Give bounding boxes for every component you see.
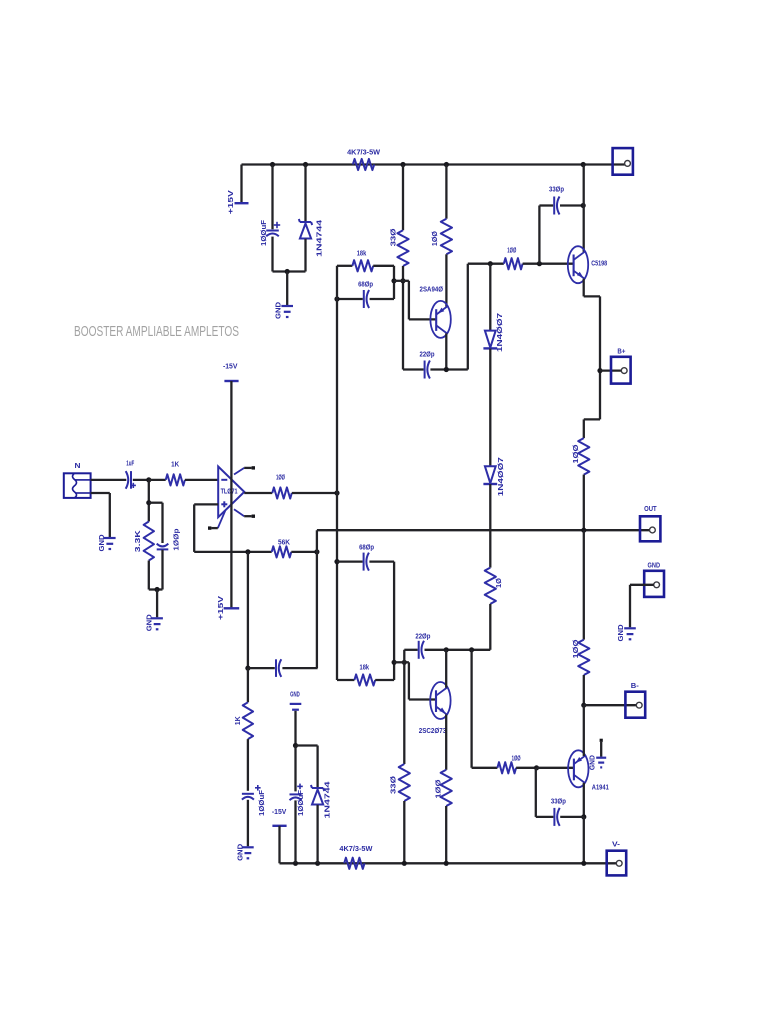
wire mid gnd lead [294,711,296,746]
wire 680p bot row left [337,560,363,562]
wire 18k top row left [337,265,352,267]
wire collector lead A1941 [583,783,585,817]
svg-text:GND: GND [145,614,154,632]
svg-text:1N4744: 1N4744 [315,219,324,257]
wire bottom V- rail [280,862,618,864]
svg-text:1ØØuF: 1ØØuF [257,790,266,816]
node C5198 collector tap [581,162,586,167]
capacitor 680p (bottom) [359,542,374,570]
wire 10 lower lead [489,604,491,650]
node 100 top tap [444,162,449,167]
resistor 1K (integrator) [233,702,253,739]
svg-text:1ØØ: 1ØØ [571,639,580,658]
svg-text:33Øp: 33Øp [549,185,564,194]
svg-text:GND: GND [648,561,661,570]
wire gnd lead top [286,272,288,306]
wire OUT riser [316,530,318,668]
svg-text:+15V: +15V [226,189,235,214]
wire feedback drop [247,552,249,668]
wire C5198 emitter [583,279,585,297]
wire A1941 to rail [583,817,585,863]
op-amp U1 TL071 [218,467,244,518]
svg-text:1ØØ: 1ØØ [433,779,442,798]
svg-text:-15V: -15V [272,807,287,816]
svg-text:C5198: C5198 [591,259,607,268]
terminal OUT box [640,504,660,541]
svg-text:22Øp: 22Øp [420,349,435,358]
resistor 56K (feedback) [272,537,292,557]
node B- tap [581,703,586,708]
svg-text:+15V: +15V [216,595,225,620]
diode D2 1N4007 [483,457,505,496]
svg-text:GND: GND [290,690,300,699]
node 330 top tap [400,162,405,167]
svg-text:22Øp: 22Øp [415,631,430,640]
wire B+ lead [600,369,622,371]
resistor 18k (bottom) [354,663,375,686]
wire 680p bot row right [369,560,394,562]
resistor 100 (op-amp out) [272,473,292,499]
node 680p bottom left [334,559,339,564]
node 330p top tie [537,261,542,266]
power +15V symbol (top left) [226,165,249,215]
terminal B- box [625,681,645,718]
svg-text:4K7/3-5W: 4K7/3-5W [347,148,381,157]
wire input signal [91,479,127,481]
node 100uF top tap [270,162,275,167]
wire 100 row left [468,263,504,265]
wire 680p top row left [337,298,363,300]
svg-text:GND: GND [616,624,625,642]
node A1941 rail tap [581,861,586,866]
wire 330p top row right [560,204,583,206]
wire -15V drop [278,826,280,864]
wire emitter lead 2SA940 [445,254,447,306]
wire 680p-18k right tie (bottom) [393,562,395,680]
terminal B+ box [611,347,631,384]
node mid gnd tee [293,743,298,748]
capacitor 100uF (top) [259,220,280,246]
svg-text:1N4ØØ7: 1N4ØØ7 [496,457,505,496]
resistor 100 (C5198 base) [504,246,523,270]
node 100 bot rail tap [444,861,449,866]
wire 100uF-bot upper lead [294,746,296,792]
title text [74,323,239,340]
capacitor 220p (bottom) [415,631,430,658]
svg-text:18k: 18k [357,248,367,257]
node 2SA940 collector [444,367,449,372]
capacitor 100p (bias) [157,528,181,550]
wire op-amp power through [230,467,232,608]
wire 10 upper lead [489,530,491,567]
wire op-amp output [244,492,272,494]
svg-text:-15V: -15V [223,361,238,370]
wire 100 to rail [445,806,447,863]
transistor Q1 2SA940 [420,285,451,338]
wire emitter lead 2SC2073 [445,715,447,770]
svg-text:1K: 1K [233,716,242,725]
wire C5198 collector [583,165,585,252]
wire 1K2 upper lead [247,668,249,702]
node input bias tee [146,477,151,482]
wire zener-bot lower lead [316,805,318,864]
wire 330p riser [538,206,540,264]
wire 330-bot riser [403,650,405,764]
svg-text:33Øp: 33Øp [551,797,566,806]
pin stub 3 (offset null) [208,511,225,530]
wire 330p top row left [539,204,553,206]
wire zener-bot upper lead [316,746,318,788]
wire 220p bot row left [404,649,417,651]
wire diode chain upper [489,264,491,331]
node jumper bot b [402,660,407,665]
resistor 1K (input) [166,460,185,486]
wire riser 220p to 100 row [467,264,469,370]
wire 220p bot row mid [425,649,472,651]
svg-text:1Ø: 1Ø [494,578,503,588]
wire 100 top lead [445,165,447,219]
wire 100 row right [523,263,574,265]
wire base lead 2SC2073 [409,698,436,700]
wire collector lead 2SA940 [445,333,447,369]
capacitor feedback (unlabeled) [276,659,281,677]
capacitor 330p (top) [549,185,564,215]
wire 100 A1941 row left [472,767,498,769]
resistor 10 (bias) [485,568,503,604]
wire 100uF top lead [271,165,273,230]
wire jumper bottom [394,661,409,663]
capacitor 220p (top) [420,349,435,378]
wire 56K row right [291,551,317,553]
node gnd tie top [285,269,290,274]
svg-text:B-: B- [631,681,639,690]
wire op-amp V- supply [230,381,232,467]
wire base drop 2SC2073 [408,662,410,699]
wire 330p bot row right [560,816,584,818]
wire diode chain middle [489,349,491,467]
svg-text:2SC2Ø73: 2SC2Ø73 [419,726,447,735]
diode zener 1N4744 (bottom) [311,780,332,818]
wire 100uF-bot lower lead [294,800,296,863]
wire 1uF to node [133,479,149,481]
wire input gnd stub [91,493,110,537]
svg-text:A1941: A1941 [592,782,610,791]
svg-text:68Øp: 68Øp [359,542,374,551]
ground (mid, inverted) [290,690,302,710]
svg-text:BOOSTER AMPLIABLE AMPLETOS: BOOSTER AMPLIABLE AMPLETOS [74,323,239,340]
terminal V- box [607,839,627,875]
wire bias bottom tie [149,550,163,590]
power -15V symbol (bottom) [272,807,287,826]
ground (GND terminal) [616,624,636,642]
node bias gnd tee [155,587,160,592]
node driver feed [334,490,339,495]
wire 220p bot row right [472,649,491,651]
wire 100 upper lead [583,419,585,438]
wire top V+ rail [242,163,625,165]
svg-text:56K: 56K [278,537,290,546]
wire 18k-680p right tie (top) [393,266,395,299]
wire 56K row left [194,551,272,553]
node 1N4744 top tap [303,162,308,167]
svg-text:1ØØp: 1ØØp [172,528,181,550]
transistor Q3 2SC2073 [419,682,451,735]
wire GND box lead [630,585,654,628]
wire A1941 drop [470,650,472,768]
wire bias drop [148,480,150,522]
wire to 1K [149,479,166,481]
capacitor 330p (bottom) [551,797,566,826]
wire 100 lower lead [583,475,585,531]
svg-text:33Ø: 33Ø [388,228,397,246]
node 100uF bot tap [293,861,298,866]
node zener bot tap [315,861,320,866]
power +15V symbol (op-amp) [216,595,239,620]
wire bias gnd lead [156,590,158,618]
node OUT riser tee [314,549,319,554]
capacitor 1uF input [126,458,136,488]
resistor 100 (OUT to B-) [571,639,590,675]
node B+ tap [597,368,602,373]
wire emitter jog right [584,295,600,297]
node A1941 branch [469,647,474,652]
transistor Q4 A1941 [568,750,609,791]
pin stub 2 (bottom right) [234,509,255,518]
resistor 100 (2SC2073 emitter) [433,770,451,806]
node jumper top a [391,278,396,283]
node feedback cap left [245,666,250,671]
resistor 330 (bottom) [388,764,410,801]
node diode chain top [488,261,493,266]
node 330p bot tie [534,765,539,770]
svg-text:33Ø: 33Ø [388,776,397,794]
node jumper bot a [392,660,397,665]
svg-text:B+: B+ [617,347,625,356]
svg-text:1N4744: 1N4744 [323,780,332,818]
node 330p bottom right [581,814,586,819]
svg-text:1ØØuF: 1ØØuF [259,220,268,246]
resistor 18k (top) [352,248,373,271]
wire 18k top row right [373,265,394,267]
svg-text:GND: GND [97,534,106,552]
svg-text:1K: 1K [171,460,179,469]
node 100p tee [146,500,151,505]
wire 220p top row right [430,368,467,370]
svg-text:N: N [75,461,81,470]
ground (input jack) [97,534,116,552]
node 2SC2073 collector [444,647,449,652]
svg-text:V-: V- [612,839,621,848]
wire emitter lead A1941 [583,705,585,756]
wire 100uF-left lower lead [247,800,249,847]
svg-text:OUT: OUT [644,504,657,513]
wire base lead A1941 [537,767,574,769]
wire 1K2 lower lead [247,739,249,791]
svg-text:GND: GND [235,843,244,861]
connector N input jack [64,461,91,498]
capacitor 680p (top) [358,279,373,308]
diode zener 1N4744 (top) [299,165,324,272]
ground (100uF left) [235,843,253,861]
node 330 bot rail tap [402,861,407,866]
svg-text:1ØØ: 1ØØ [276,473,285,482]
wire 100 B- lower lead [583,675,585,705]
wire base drop 2SA940 [408,281,410,320]
ground (input bias) [145,614,163,632]
wire output to driver node [292,492,337,494]
wire fb cap row right [282,667,317,669]
svg-text:4K7/3-5W: 4K7/3-5W [339,844,373,853]
wire B- lead [584,704,637,706]
wire 100uF bottom lead [271,237,273,272]
svg-text:1ØØ: 1ØØ [430,231,439,246]
wire B+ drop [599,296,601,419]
resistor 100 (B+ to OUT) [571,438,590,475]
wire 680p top row right [370,298,394,300]
svg-text:GND: GND [273,301,282,319]
wire diode chain lower [489,484,491,530]
wire 330 top lead [402,165,404,231]
svg-text:2SA94Ø: 2SA94Ø [420,285,444,294]
pin stub 1 (top right) [234,466,255,474]
ground (top supply) [273,301,293,319]
terminal GND box [644,561,664,597]
terminal V+ box [613,148,633,175]
resistor 3.3K (bias) [133,522,154,561]
wire OUT rail [317,529,651,531]
svg-text:68Øp: 68Øp [358,279,373,288]
wire cap-zener tie [273,270,306,272]
power -15V symbol (op-amp) [223,361,239,381]
svg-text:1ØØ: 1ØØ [512,753,521,762]
wire 100 B- upper lead [583,530,585,639]
wire 330p-bot riser [535,768,537,817]
transistor Q2 C5198 [568,246,607,283]
svg-text:18k: 18k [360,663,370,672]
resistor 4K7/3-5W (top rail) [347,148,381,171]
svg-text:TLØ71: TLØ71 [221,487,238,496]
node 330p at collector [581,203,586,208]
node 680p top left [334,296,339,301]
wire 330p bot row left [536,816,554,818]
svg-text:1N4ØØ7: 1N4ØØ7 [495,313,504,352]
wire 220p top row left [403,368,424,370]
wire mid tie [296,744,318,746]
wire base lead 2SA940 [409,318,436,320]
node OUT tap [581,528,586,533]
capacitor 100uF (left bottom) [242,785,266,816]
diode D1 1N4007 [483,313,504,352]
wire jumper top [394,280,409,282]
svg-text:1ØØ: 1ØØ [507,246,516,255]
capacitor 100uF (bottom) [290,784,306,816]
wire 330-bot to rail [403,801,405,863]
wire 100p branch [149,503,163,543]
wire 100 A1941 row right [516,767,536,769]
svg-text:GND: GND [589,755,596,770]
resistor 330 (top) [388,228,408,266]
node 56K tee [245,549,250,554]
resistor 100 (A1941 base) [497,753,520,773]
ground (A1941 bias) [589,739,606,770]
svg-text:1ØØuF: 1ØØuF [296,790,305,816]
wire collector lead 2SC2073 [445,650,447,688]
svg-text:1uF: 1uF [126,458,134,467]
wire 18k bot row right [375,679,394,681]
resistor 4K7/3-5W (bottom rail) [339,844,373,869]
resistor 100 (2SA940 emitter) [430,219,452,255]
wire 1K to opamp [185,479,218,481]
wire fb cap row left [248,667,275,669]
wire jog to 100 [584,418,600,420]
wire 330 bottom lead to 220p row [402,266,404,370]
wire driver vertical [336,266,338,680]
wire 18k bot row left [337,679,354,681]
node jumper top b [400,278,405,283]
wire feedback + input [194,504,218,552]
svg-text:3.3K: 3.3K [133,530,142,553]
svg-text:1ØØ: 1ØØ [571,444,580,463]
